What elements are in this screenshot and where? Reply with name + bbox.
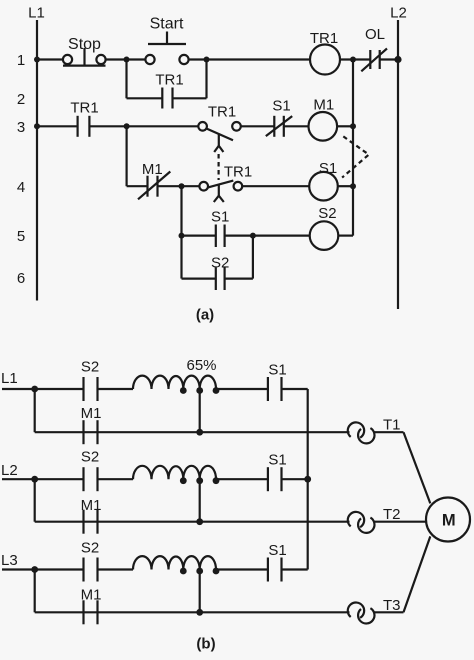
wire 65% tap drop L1 [199, 391, 201, 433]
wire coil S2 to bus corner [338, 235, 353, 237]
contact S1 phase L2 [268, 452, 287, 492]
wire S1 L2 to star bus [282, 478, 308, 480]
wire L1 main line [2, 388, 84, 390]
junction rung1/rung2-right [204, 57, 210, 63]
junction rung5 left [179, 233, 185, 239]
contact M1 (NC) rung4 [138, 161, 170, 199]
wire rung5-rung6 right vertical [252, 236, 254, 279]
wire rung 1 between Stop and Start [107, 58, 145, 60]
contact S1 phase L1 [268, 362, 287, 402]
wire coil S1 to bus [338, 185, 353, 187]
autotransformer winding L1 [133, 376, 216, 389]
junction star bus L2 [304, 476, 311, 483]
wire coil bus vertical [352, 60, 354, 236]
contact S1 (NC) rung3 [266, 98, 292, 137]
svg-text:S1: S1 [319, 160, 337, 177]
wire L3 branch vertical [34, 570, 36, 613]
motor M [426, 498, 470, 542]
svg-text:S2: S2 [318, 205, 336, 222]
svg-text:3: 3 [17, 119, 25, 136]
svg-text:S1: S1 [268, 362, 286, 379]
svg-text:TR1: TR1 [208, 104, 236, 121]
pushbutton Start (NO) [145, 16, 188, 65]
wire S2 to autotransformer L2 [98, 478, 134, 480]
junction rung1/coil-bus [350, 57, 356, 63]
tap dot 2 L1 [196, 387, 203, 394]
svg-text:4: 4 [17, 179, 25, 196]
junction rung5/rung6 right [250, 233, 256, 239]
wire star bus vertical [307, 389, 309, 570]
wire 65% tap drop L2 [199, 481, 201, 522]
svg-text:S1: S1 [268, 452, 286, 469]
wire rung 1 left segment [37, 58, 62, 60]
svg-text:Start: Start [150, 16, 184, 33]
svg-text:65%: 65% [186, 357, 216, 374]
wire T1 diagonal to motor [404, 432, 431, 503]
wire T3 diagonal to motor [404, 536, 431, 612]
junction L1 branch [31, 386, 38, 393]
svg-text:TR1: TR1 [155, 72, 183, 89]
wire rung3-rung4 vertical [125, 126, 127, 186]
wire rung 6 left segment [182, 278, 216, 280]
wire rung 4 M1 to timed contact [158, 185, 200, 187]
wire rung 5 left segment [182, 235, 216, 237]
wire autotransformer to S1 L1 [216, 388, 268, 390]
svg-text:(a): (a) [196, 307, 214, 324]
wire S2 to autotransformer L1 [98, 388, 134, 390]
junction tap-branch L2 [196, 518, 203, 525]
wire rung 3 timed contact to S1 [241, 125, 274, 127]
svg-text:S2: S2 [81, 359, 99, 376]
contact TR1 (NO) rung3 [70, 100, 98, 137]
junction rung4-bus [350, 183, 356, 189]
contact S2 (NO) rung6 [211, 255, 229, 291]
tap dot 2 L2 [196, 477, 203, 484]
svg-text:M1: M1 [81, 405, 102, 422]
wire rung2 branch left vertical [125, 60, 127, 99]
contact S1 phase L3 [268, 542, 287, 582]
junction rung3/rung4 drop [124, 123, 130, 129]
svg-text:L2: L2 [1, 462, 18, 479]
wire L1 branch vertical [34, 389, 36, 432]
svg-text:S1: S1 [211, 209, 229, 226]
tap dot 3 L2 [213, 477, 220, 484]
wire OL to rail L2 [380, 58, 398, 60]
svg-text:6: 6 [17, 270, 25, 287]
coil S1 [309, 160, 338, 200]
svg-text:M: M [442, 512, 456, 530]
junction rung4/rung5 drop [179, 183, 185, 189]
timed contact TR1 (NCTO) rung4 [199, 164, 252, 203]
svg-text:L3: L3 [1, 552, 18, 569]
overload element T1 [348, 417, 401, 444]
overload contact OL (NC) [361, 26, 387, 71]
pushbutton Stop (NC) [63, 36, 106, 66]
wire rung 5 S1 to coil S2 [225, 235, 310, 237]
tap dot 1 L1 [180, 387, 187, 394]
wire rung 4 left segment [127, 185, 148, 187]
contact S2 phase L1 [81, 359, 99, 402]
timed contact TR1 (NOTC) rung3 [198, 104, 241, 153]
dashed timer link rung3-rung4 [218, 154, 220, 180]
tap dot 2 L3 [196, 568, 203, 575]
svg-text:OL: OL [365, 26, 385, 43]
svg-text:T2: T2 [383, 506, 401, 523]
svg-text:T1: T1 [383, 417, 401, 434]
tap dot 3 L1 [213, 387, 220, 394]
coil M1 [309, 97, 338, 141]
wire S2 to autotransformer L3 [98, 568, 134, 570]
svg-text:L1: L1 [28, 5, 45, 22]
contact M1 phase L3 [81, 587, 102, 625]
wire rung 3 left segment [37, 125, 78, 127]
svg-text:S2: S2 [81, 449, 99, 466]
junction rung1-L2 [394, 56, 401, 63]
coil TR1 [310, 30, 340, 75]
svg-text:S1: S1 [272, 98, 290, 115]
wire rung 4 timed contact to coil S1 [242, 185, 309, 187]
svg-text:L2: L2 [390, 5, 407, 22]
contact M1 phase L1 [81, 405, 102, 444]
wire rung5-rung6 left vertical [180, 236, 182, 279]
autotransformer winding L2 [133, 466, 216, 479]
contact S2 phase L3 [81, 539, 99, 581]
wire L1 run branch [35, 431, 350, 433]
junction L3 branch [31, 566, 38, 573]
wire L2 main line [2, 478, 84, 480]
junction rail-rung1 [34, 57, 40, 63]
wire coil TR1 to OL [340, 58, 370, 60]
wire T1 to corner [374, 431, 403, 433]
svg-text:1: 1 [17, 52, 25, 69]
tap dot 1 L3 [180, 568, 187, 575]
svg-text:TR1: TR1 [224, 164, 252, 181]
svg-text:TR1: TR1 [70, 100, 98, 117]
wire rung 1 Start to coil TR1 [190, 58, 311, 60]
wire rung4-rung5 vertical [180, 186, 182, 235]
wire L2 branch vertical [34, 479, 36, 522]
svg-text:S2: S2 [81, 539, 99, 556]
wire L3 run branch [35, 611, 350, 613]
svg-text:L1: L1 [1, 370, 18, 387]
wire left rail L1 [36, 20, 38, 301]
junction L2 branch [31, 476, 38, 483]
overload element T2 [348, 506, 401, 533]
dashed mechanical interlock M1-S1 [342, 136, 369, 177]
wire autotransformer to S1 L2 [216, 478, 268, 480]
overload element T3 [348, 597, 401, 623]
svg-text:S1: S1 [268, 542, 286, 559]
junction tap-branch L1 [196, 429, 203, 436]
junction rail-rung3 [34, 123, 40, 129]
wire autotransformer to S1 L3 [216, 568, 268, 570]
wire S1 L1 to star bus [282, 388, 308, 390]
wire rung 6 right segment [225, 278, 253, 280]
wire 65% tap drop L3 [199, 571, 201, 612]
autotransformer winding L3 [133, 556, 216, 569]
wire T3 to corner [374, 611, 403, 613]
svg-text:S2: S2 [211, 255, 229, 272]
tap dot 3 L3 [213, 568, 220, 575]
svg-text:5: 5 [17, 228, 25, 245]
wire rung 3 S1 to coil M1 [284, 125, 309, 127]
junction tap-branch L3 [196, 609, 203, 616]
wire T2 to motor [374, 521, 426, 523]
wire right rail L2 [397, 20, 399, 309]
wire rung2 branch right vertical [205, 60, 207, 99]
contact M1 phase L2 [81, 497, 102, 534]
wire S1 L3 to star bus [282, 568, 308, 570]
wire rung 3 to timed contact [89, 125, 198, 127]
contact S1 (NO) rung5 [211, 209, 229, 248]
coil S2 [310, 205, 339, 250]
contact TR1 (NO) rung2 [127, 72, 207, 109]
svg-text:(b): (b) [196, 636, 215, 653]
junction rung1/rung2-left [124, 57, 130, 63]
wire coil M1 to bus [337, 125, 353, 127]
svg-text:2: 2 [17, 91, 25, 108]
wire L2 run branch [35, 521, 350, 523]
junction rung3-bus [350, 123, 356, 129]
tap dot 1 L2 [180, 477, 187, 484]
svg-text:M1: M1 [142, 161, 163, 178]
contact S2 phase L2 [81, 449, 99, 492]
wire L3 main line [2, 568, 84, 570]
